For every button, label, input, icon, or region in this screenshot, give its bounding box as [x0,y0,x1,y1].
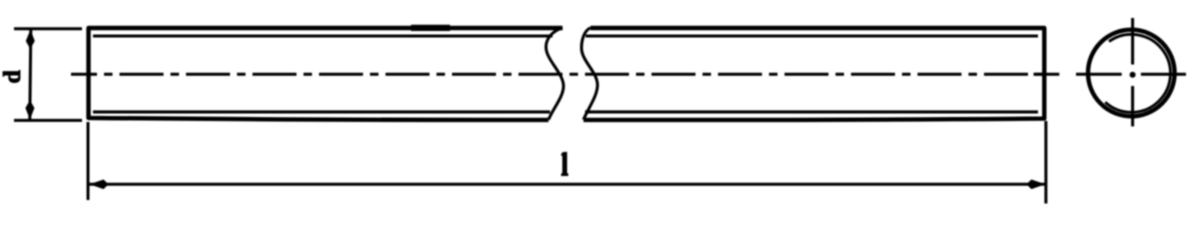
end view: center dot [1130,72,1136,78]
dimension l: left extension line [87,122,90,200]
break line (wavy) left [546,28,564,120]
rod left segment outline (left end face, top and bottom outer lines) [89,28,563,120]
end view: vertical center line, upper segment [1131,18,1134,65]
dimension d: dimension line [30,30,31,119]
svg-text:d: d [0,69,26,83]
end view: outer circle (major diameter) [1088,30,1175,117]
end view: vertical center line, lower segment [1131,86,1134,126]
thread minor-diameter line, bottom left [93,110,550,113]
end view: horizontal center line, left segment [1076,73,1122,76]
dimension d: top extension line [14,27,82,30]
dimension l: left arrowhead [90,180,109,190]
dimension l: right arrowhead [1026,180,1045,190]
thicker retouch segment on top outer line [411,25,450,31]
end view: thread minor-diameter arc (3/4 circle, gap at upper left) [1105,34,1170,112]
dimension d: upper arrowhead [26,30,35,49]
dimension l: right extension line [1044,121,1047,204]
rod axis center line (dash-dot) [71,73,1046,76]
thread minor-diameter line, top left [93,34,553,37]
center line final dash crossing rod right end [1034,73,1060,76]
dimension l: dimension line [89,183,1045,186]
dimension d: lower arrowhead [25,100,34,120]
rod right segment outline (top outer, right end face, bottom outer) [584,28,1045,120]
dimension d: bottom extension line [14,119,82,122]
break line (wavy) right [582,28,598,120]
end view: horizontal center line, right segment [1141,73,1186,76]
thread minor-diameter line, top right [586,34,1038,37]
thread minor-diameter line, bottom right [585,110,1038,113]
label l [561,152,569,176]
